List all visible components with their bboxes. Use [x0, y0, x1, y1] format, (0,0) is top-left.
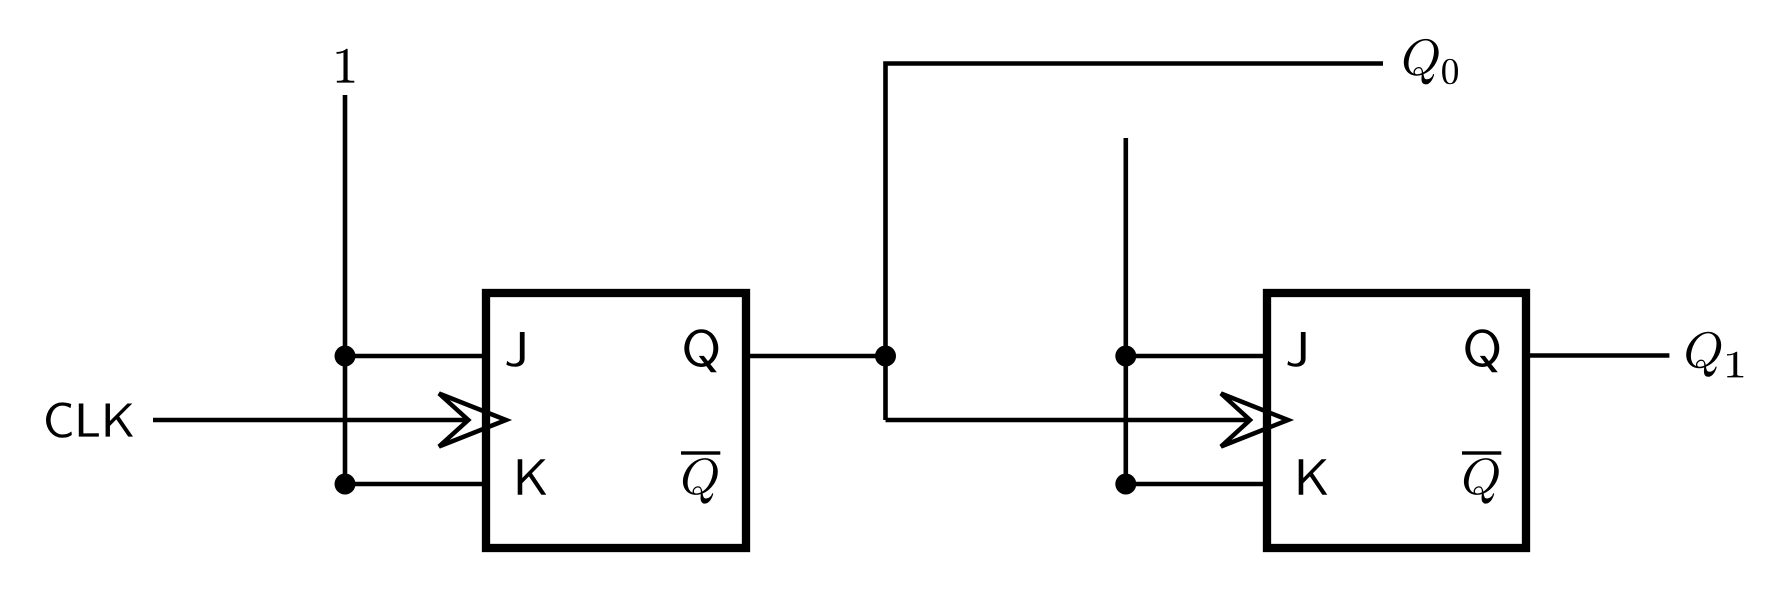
- net label Q1 (italic Q): [1686, 332, 1721, 377]
- wire: FF1 Q output to junction: [746, 354, 886, 359]
- FF2 pin label Q: [1465, 329, 1499, 372]
- wire: Q0 net vertical and top run: [886, 64, 1384, 421]
- wire: junction down-run to FF2 clock: [886, 418, 1251, 423]
- FF2 clock edge-trigger arrowhead: [1221, 394, 1288, 447]
- net label Q1 (subscript 1): [1727, 352, 1743, 378]
- jk-flip-flop U1 box: [486, 293, 746, 548]
- node: junction dot at J1 input: [335, 346, 356, 367]
- wire: FF2 Q output: [1526, 353, 1669, 358]
- node: junction dot at J2 input: [1115, 346, 1136, 367]
- wire: J2-K2 tie vertical stub: [1124, 138, 1129, 484]
- jk-flip-flop U2 box: [1267, 293, 1526, 548]
- wire: J2 input: [1126, 354, 1271, 359]
- FF2 pin label Q-bar glyph: [1464, 458, 1499, 504]
- FF1 clock edge-trigger arrowhead: [439, 394, 506, 447]
- net label Q0 (subscript 0): [1442, 59, 1458, 84]
- FF1 pin label Q-bar glyph: [683, 458, 718, 504]
- FF1 pin label Q-bar overline: [681, 451, 720, 454]
- node: junction dot at K2 input: [1115, 474, 1136, 495]
- FF1 pin label Q: [684, 329, 718, 372]
- FF2 pin label J: [1287, 332, 1305, 367]
- wire: constant-1 vertical: [343, 95, 348, 484]
- FF2 pin label K: [1299, 459, 1328, 494]
- net label Q0 (italic Q): [1404, 39, 1439, 85]
- net constant-1 label "1": [337, 49, 355, 83]
- FF1 pin label J: [506, 332, 524, 367]
- wire: K1 input: [345, 482, 490, 487]
- node: junction dot on Q0 net: [875, 346, 896, 367]
- wire: CLK to FF1 clock: [153, 418, 468, 423]
- node: junction dot at K1 input: [335, 474, 356, 495]
- FF1 pin label K: [518, 459, 547, 494]
- FF2 pin label Q-bar overline: [1462, 451, 1501, 454]
- wire: K2 input: [1126, 482, 1271, 487]
- wire: J1 input: [345, 354, 490, 359]
- CLK input label: [46, 402, 133, 437]
